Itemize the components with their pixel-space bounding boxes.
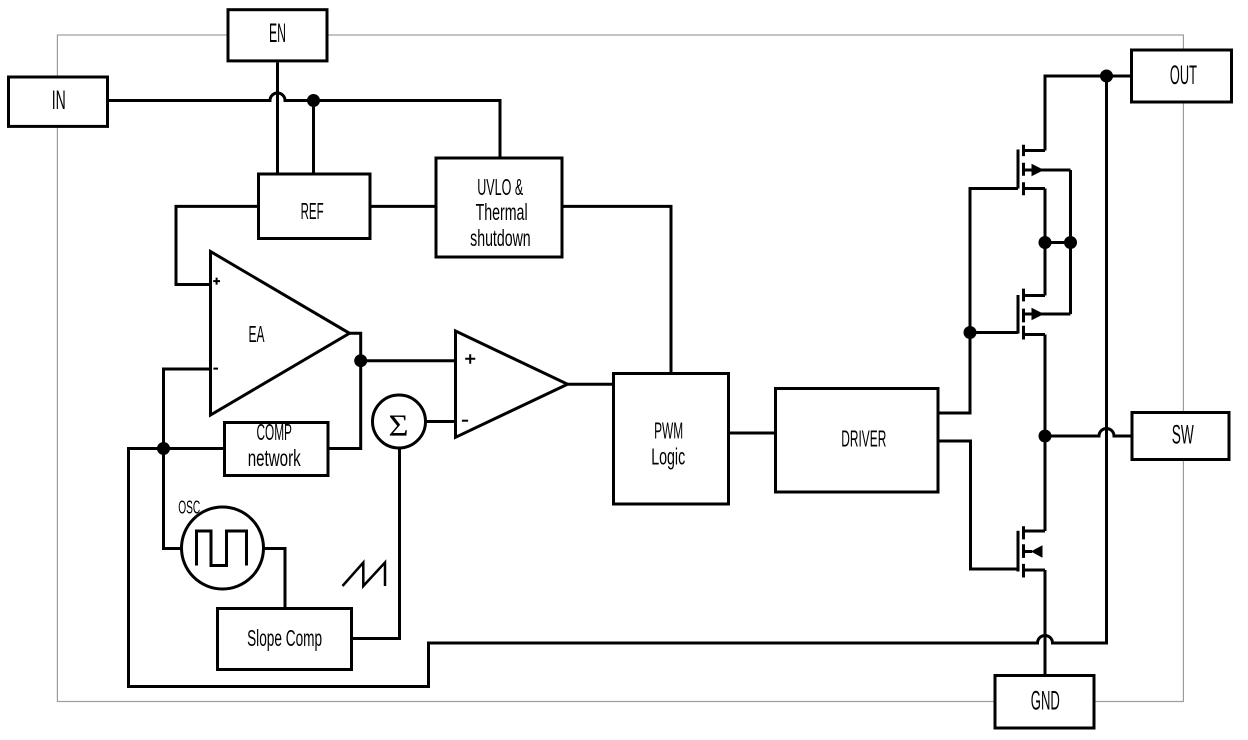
node gate branch — [964, 326, 977, 339]
svg-text:EN: EN — [269, 18, 286, 48]
sawtooth ramp glyph — [343, 563, 386, 587]
port box GND — [995, 676, 1094, 729]
wire comparator output to PWM Logic — [568, 383, 613, 386]
svg-text:Σ: Σ — [389, 407, 409, 442]
block PWM Logic — [614, 374, 729, 505]
summer sigma node — [373, 395, 426, 448]
transistor Q3 (low-side NMOS) — [1018, 526, 1045, 577]
node IN/EN junction — [307, 94, 320, 107]
port box OUT — [1132, 50, 1232, 102]
svg-text:COMP: COMP — [256, 419, 292, 445]
svg-text:Logic: Logic — [651, 444, 685, 470]
node feedback junction — [157, 442, 170, 455]
wire EA - input to feedback node — [164, 369, 211, 449]
Q1 body arrow — [1032, 164, 1045, 177]
svg-text:IN: IN — [52, 85, 66, 115]
wire node IN-junction to REF — [312, 101, 315, 173]
wire REF to UVLO — [372, 205, 435, 208]
comparator plus input mark — [465, 354, 475, 363]
wire OUT node to Q1 drain — [1045, 76, 1131, 151]
svg-text:EA: EA — [249, 321, 265, 347]
block REF — [259, 174, 371, 239]
wire OSC to Slope Comp top — [264, 549, 285, 608]
svg-text:GND: GND — [1031, 685, 1060, 715]
Q3 body arrow — [1031, 545, 1043, 558]
wire Q1 body to Q2 body — [1069, 170, 1072, 314]
svg-text:DRIVER: DRIVER — [841, 426, 886, 452]
wire feedback from OUT node to COMP network left (hops over GND vertical) — [129, 76, 1107, 687]
svg-text:shutdown: shutdown — [470, 225, 531, 251]
wire REF to EA + input — [176, 206, 257, 284]
svg-text:PWM: PWM — [654, 418, 683, 444]
node OUT — [1100, 70, 1113, 83]
wire EA output node to COMP network right — [330, 361, 361, 449]
wire Q3 source to GND — [1044, 570, 1047, 674]
port box IN — [9, 77, 108, 126]
Q2 body arrow — [1032, 308, 1045, 321]
wire EA output to comparator + input — [350, 333, 456, 360]
OSC square wave glyph — [197, 531, 247, 566]
wire IN to UVLO top (hop over EN vertical) — [109, 93, 500, 156]
svg-text:REF: REF — [301, 198, 324, 224]
wire EN to REF — [276, 63, 279, 173]
transistor Q1 (high-side PMOS) — [1018, 145, 1071, 196]
wire Slope Comp to summer bottom — [353, 449, 400, 639]
node Q1/Q2 source-drain — [1039, 236, 1052, 249]
node Q1/Q2 body — [1064, 236, 1077, 249]
transistor Q2 (mid PMOS) — [1018, 289, 1071, 340]
wire body node link — [1045, 241, 1071, 244]
wire DRIVER lower output to Q3 gate — [940, 441, 1019, 569]
svg-text:OUT: OUT — [1170, 60, 1197, 90]
block COMP network — [225, 419, 329, 476]
svg-text:Slope Comp: Slope Comp — [247, 625, 322, 651]
oscillator OSC — [178, 497, 263, 589]
wire summer to comparator - input — [425, 420, 456, 423]
wire UVLO to PWM Logic top — [564, 206, 672, 372]
svg-text:OSC: OSC — [178, 497, 200, 517]
port box EN — [228, 10, 327, 61]
block UVLO and thermal shutdown — [436, 158, 562, 257]
block DRIVER — [776, 389, 939, 493]
wire Q2 source to Q3 drain (SW node) — [1044, 335, 1047, 532]
port box SW — [1132, 413, 1229, 460]
svg-text:Thermal: Thermal — [476, 199, 528, 225]
wire PWM Logic to DRIVER — [730, 432, 774, 435]
comparator minus input mark — [462, 420, 468, 422]
wire gate node to Q2 gate — [970, 331, 1018, 334]
node SW — [1039, 430, 1052, 443]
comparator U2 — [456, 331, 568, 437]
svg-text:UVLO &: UVLO & — [477, 174, 523, 200]
EA plus input mark — [213, 278, 220, 285]
op-amp EA (error amplifier) — [211, 252, 350, 416]
block Slope Comp — [218, 609, 352, 670]
wire SW node to SW pin (hop over OUT feedback vertical) — [1045, 429, 1131, 437]
EA minus input mark — [213, 368, 218, 370]
wire Q1 source to Q2 drain — [1044, 189, 1047, 296]
svg-text:SW: SW — [1172, 420, 1194, 450]
node EA output — [354, 354, 367, 367]
wire feedback node down to OSC — [164, 449, 182, 549]
wire DRIVER upper output to Q1 gate — [940, 189, 1019, 414]
svg-text:network: network — [248, 445, 301, 471]
